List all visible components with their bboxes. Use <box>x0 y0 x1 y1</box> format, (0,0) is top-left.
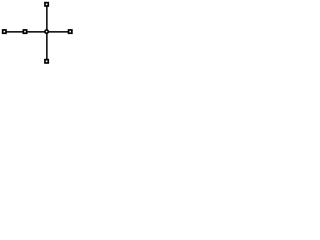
background <box>0 0 74 67</box>
wire: vertical net segment <box>46 4 48 61</box>
terminal handle, top wire end <box>44 2 49 7</box>
junction node at wire crossing <box>44 29 49 34</box>
terminal handle, left wire end <box>2 29 7 34</box>
terminal handle, bottom wire end <box>44 59 49 64</box>
wire: horizontal net segment <box>4 31 70 33</box>
terminal handle, mid-left on horizontal wire <box>23 29 28 34</box>
terminal handle, right wire end <box>68 29 73 34</box>
